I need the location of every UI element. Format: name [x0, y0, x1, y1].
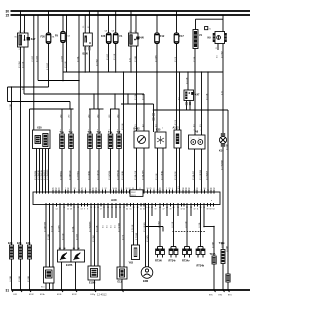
svg-text:51: 51: [159, 188, 161, 190]
svg-text:16: 16: [147, 188, 149, 190]
fuse F30: [41, 11, 55, 44]
svg-text:Y63: Y63: [129, 261, 134, 264]
svg-text:47: 47: [81, 188, 83, 190]
sensor E3M: [141, 267, 153, 283]
svg-text:0.5 SW: 0.5 SW: [93, 235, 95, 242]
svg-text:0.5 SW: 0.5 SW: [96, 59, 98, 66]
svg-text:13: 13: [74, 188, 76, 190]
relay K27: [15, 11, 36, 51]
svg-text:E26: E26: [26, 242, 31, 245]
ECU bottom pin ticks: [46, 203, 204, 205]
svg-text:37: 37: [157, 190, 159, 192]
svg-text:13: 13: [78, 190, 80, 192]
svg-text:7: 7: [166, 188, 167, 190]
node H72 long horizontal: [63, 71, 223, 73]
wire H72 drop to A8 box: [201, 72, 203, 135]
svg-text:8: 8: [87, 208, 88, 210]
svg-text:42: 42: [52, 188, 54, 190]
svg-text:1: 1: [36, 190, 37, 192]
node H87 horizontal: [8, 86, 49, 88]
node H104 horizontal: [121, 103, 154, 105]
mid wiring: [8, 11, 229, 274]
svg-text:A30: A30: [111, 198, 117, 202]
wires ECU to E11 box: [119, 205, 121, 268]
svg-text:0.5 SW/GE: 0.5 SW/GE: [38, 169, 40, 180]
svg-text:0.5 SW: 0.5 SW: [135, 93, 137, 100]
svg-text:59: 59: [155, 208, 157, 210]
svg-text:20: 20: [55, 188, 57, 190]
injector RT34h: [196, 247, 205, 268]
svg-text:0.5 BL: 0.5 BL: [77, 55, 79, 62]
svg-text:11: 11: [197, 208, 199, 210]
diode unit V1: [193, 19, 203, 48]
blower unit E17 left: [58, 247, 80, 291]
wire B4/6 drop to B482: [136, 46, 138, 131]
svg-text:19: 19: [98, 190, 100, 192]
svg-text:48: 48: [70, 208, 72, 210]
wire fuse F9 down: [62, 43, 64, 81]
bus 30: [6, 9, 251, 13]
wire label band: [10, 51, 229, 189]
svg-text:2: 2: [39, 190, 40, 192]
top components: [15, 11, 227, 81]
node H110 horizontal: [154, 109, 229, 111]
svg-text:0.5 BL/RT: 0.5 BL/RT: [193, 170, 195, 180]
svg-text:0.5 GN: 0.5 GN: [62, 233, 64, 240]
svg-text:13: 13: [81, 208, 83, 210]
svg-text:3: 3: [42, 190, 43, 192]
svg-text:F30: F30: [41, 36, 46, 39]
wire K27 pin down to node H94: [23, 47, 25, 94]
svg-text:E25: E25: [17, 242, 22, 245]
svg-text:68: 68: [210, 208, 212, 210]
svg-text:4: 4: [117, 130, 118, 132]
svg-text:9: 9: [84, 208, 85, 210]
svg-text:64: 64: [126, 208, 128, 210]
plug E26: [26, 242, 32, 290]
svg-text:51: 51: [201, 190, 203, 192]
svg-text:B4/6: B4/6: [139, 37, 145, 40]
relay B4/6: [129, 11, 145, 46]
wire H72 drop to ECU x208: [207, 72, 209, 192]
svg-text:25: 25: [67, 208, 69, 210]
svg-text:0.5 RT: 0.5 RT: [76, 233, 78, 240]
svg-text:0.5 GE: 0.5 GE: [114, 53, 116, 60]
svg-text:53: 53: [207, 190, 209, 192]
svg-text:3: 3: [97, 130, 98, 132]
svg-text:0.5 GE/BR: 0.5 GE/BR: [144, 222, 146, 232]
svg-text:0.5 WS: 0.5 WS: [147, 235, 149, 242]
ECU bottom pin numbers: [46, 207, 206, 209]
svg-text:0.5 GR/WS: 0.5 GR/WS: [200, 169, 202, 180]
ECU top pin ticks: [37, 192, 209, 194]
plug T4e: [108, 131, 113, 192]
svg-text:40: 40: [210, 188, 212, 190]
svg-text:27: 27: [123, 190, 125, 192]
svg-text:0.5 BR: 0.5 BR: [212, 241, 214, 248]
svg-text:0.5 GE: 0.5 GE: [51, 225, 53, 232]
svg-text:28: 28: [95, 188, 97, 190]
plug on right edge wire: [226, 274, 230, 290]
svg-text:39: 39: [170, 208, 172, 210]
node H101 horizontal: [8, 101, 71, 103]
svg-text:5: 5: [102, 188, 103, 190]
svg-text:1.0 GE: 1.0 GE: [172, 221, 174, 228]
wire gate1 feed: [69, 102, 71, 110]
plug T4a: [60, 131, 65, 192]
svg-text:0.5 GN: 0.5 GN: [65, 61, 67, 68]
svg-text:17: 17: [89, 190, 91, 192]
svg-text:29: 29: [150, 188, 152, 190]
svg-text:1.0 GN: 1.0 GN: [185, 221, 187, 228]
svg-text:0.5 BL: 0.5 BL: [72, 225, 74, 232]
wire fuse F7 down: [48, 44, 50, 88]
svg-text:0.5 VI/WS: 0.5 VI/WS: [118, 222, 120, 232]
svg-text:30: 30: [129, 31, 131, 33]
wire bus15 down to X30: [33, 15, 35, 130]
svg-text:RT34r: RT34r: [169, 260, 176, 263]
svg-text:85: 85: [23, 31, 25, 33]
relay K9 with side plugs: [196, 15, 227, 50]
wire F12 drop to snow box: [156, 44, 158, 133]
svg-text:0.5 VI: 0.5 VI: [175, 119, 177, 125]
svg-text:0.5 VI: 0.5 VI: [122, 234, 124, 240]
connector block X30: [33, 126, 51, 192]
bottom components: [8, 242, 230, 290]
wire F17 drop to A182: [176, 44, 178, 131]
svg-text:E3M: E3M: [143, 280, 148, 283]
svg-text:0.5 WS/GN: 0.5 WS/GN: [117, 169, 119, 180]
svg-text:31: 31: [6, 288, 10, 292]
svg-text:▸: ▸: [211, 199, 212, 202]
fuse F17: [174, 11, 184, 44]
svg-text:11: 11: [70, 190, 72, 192]
wire fuse F26 drop: [108, 44, 110, 73]
svg-text:0.5 GR: 0.5 GR: [206, 93, 208, 100]
svg-text:0.5 WS/BL: 0.5 WS/BL: [109, 170, 111, 180]
fuse F26: [101, 15, 111, 44]
wires ECU to E3M: [145, 205, 147, 267]
stub wires: [103, 205, 105, 219]
svg-text:X30/2: X30/2: [131, 192, 136, 194]
gate1 legs: [61, 109, 63, 134]
svg-text:2: 2: [201, 129, 202, 131]
svg-text:X30: X30: [37, 126, 42, 130]
svg-text:0.5 SW/BR: 0.5 SW/BR: [221, 160, 223, 170]
wire labels below ECU: [10, 221, 229, 282]
svg-text:0.5 BR/GE: 0.5 BR/GE: [69, 170, 71, 180]
wire bus15 long drop to ECU: [78, 15, 80, 192]
svg-text:T10A: T10A: [210, 253, 216, 256]
svg-text:2: 2: [109, 130, 110, 132]
below ECU wiring: [10, 205, 229, 283]
wire right edge drop: [227, 110, 229, 274]
injector RT34l: [155, 247, 164, 263]
wire gate2 feed: [93, 94, 95, 109]
gate2 bar and legs: [89, 108, 104, 110]
svg-text:0.5 BL: 0.5 BL: [194, 55, 196, 62]
svg-text:RT34v: RT34v: [182, 260, 190, 263]
svg-text:39: 39: [162, 190, 164, 192]
svg-text:1: 1: [162, 127, 163, 129]
svg-text:0.5 SW/GN: 0.5 SW/GN: [41, 169, 43, 180]
svg-text:X30/3: X30/3: [131, 195, 136, 197]
control unit E10: [41, 267, 54, 290]
wire B2/6 drops: [84, 52, 86, 72]
svg-text:0.5 BL/GE: 0.5 BL/GE: [135, 170, 137, 180]
relay B2/6: [83, 11, 93, 56]
svg-text:F17: F17: [180, 35, 185, 38]
instrument unit A8: [189, 130, 206, 192]
small plug X1: [205, 27, 212, 31]
dashed shield line: [173, 231, 206, 233]
svg-text:0.5 GR/BL: 0.5 GR/BL: [161, 170, 163, 180]
wire H72 drop to A182: [179, 72, 181, 130]
plug T4f: [117, 131, 122, 192]
plug T4b: [88, 131, 93, 192]
svg-text:0.5 BR: 0.5 BR: [48, 233, 50, 240]
svg-text:51: 51: [58, 188, 60, 190]
wire K9 drop to lamp: [222, 44, 224, 134]
node H94 horizontal: [24, 93, 144, 95]
svg-text:0.5 WS: 0.5 WS: [155, 55, 157, 62]
wires ECU to injectors: [159, 205, 161, 247]
svg-text:RT34l: RT34l: [155, 260, 162, 263]
svg-text:32: 32: [194, 208, 196, 210]
svg-text:0.5 BL/WS: 0.5 BL/WS: [142, 170, 144, 180]
ground ticks: [12, 290, 230, 292]
ECU inner connector box: [130, 190, 143, 197]
svg-text:45: 45: [179, 190, 181, 192]
svg-text:14: 14: [56, 208, 58, 210]
svg-text:10: 10: [67, 188, 69, 190]
svg-text:1.0 BR: 1.0 BR: [226, 245, 228, 252]
node H80 horizontal: [38, 80, 79, 82]
wire H72 drop to ECU x123.5: [123, 72, 125, 192]
wire drop to snow box with plug bits: [153, 104, 155, 132]
wire fuse F1 drop: [115, 44, 117, 73]
ECU top pin numbers: [36, 190, 209, 192]
svg-text:23: 23: [110, 190, 112, 192]
svg-text:0.5 GN: 0.5 GN: [122, 123, 124, 130]
svg-text:E35: E35: [156, 129, 161, 132]
svg-text:0.5 GR: 0.5 GR: [186, 77, 188, 84]
svg-text:4: 4: [45, 190, 46, 192]
svg-text:8: 8: [85, 188, 86, 190]
svg-text:0.5 GE/BL: 0.5 GE/BL: [88, 170, 90, 180]
gate3 bar and legs: [110, 108, 120, 110]
svg-text:0.5 GN: 0.5 GN: [156, 173, 158, 180]
svg-text:0.5 VI/GE: 0.5 VI/GE: [175, 171, 177, 180]
wire H94 drop to B482: [143, 94, 145, 131]
svg-text:0.5 GR: 0.5 GR: [96, 225, 98, 232]
node H226 left piece: [146, 226, 164, 228]
plug T10A: [210, 253, 217, 290]
svg-text:49: 49: [194, 190, 196, 192]
injector RT34v: [182, 247, 191, 263]
svg-text:0.5 RT: 0.5 RT: [36, 55, 38, 62]
svg-text:54: 54: [188, 188, 190, 190]
svg-text:B482: B482: [134, 128, 141, 131]
svg-text:0.5 BR: 0.5 BR: [135, 55, 137, 62]
ground point labels: [14, 294, 233, 297]
svg-text:e: e: [191, 138, 192, 140]
svg-text:8: 8: [154, 188, 155, 190]
injector RT34r: [169, 247, 178, 263]
svg-text:1.0 RT: 1.0 RT: [61, 55, 63, 62]
svg-text:E17B: E17B: [66, 264, 72, 267]
sensor E11: [117, 267, 127, 290]
A/C switch (snowflake): [155, 129, 166, 192]
svg-text:E91g: E91g: [91, 294, 96, 296]
svg-text:0.5 SW/WS: 0.5 SW/WS: [47, 169, 49, 180]
svg-text:0.75 GE: 0.75 GE: [132, 224, 134, 232]
svg-text:K47: K47: [195, 94, 200, 97]
sensor B482: [134, 128, 150, 192]
svg-text:18: 18: [182, 188, 184, 190]
wire V1 drop to A8 box: [194, 49, 196, 136]
wire bus30 drop x98: [97, 11, 99, 109]
svg-text:41: 41: [140, 208, 142, 210]
svg-text:0.5 SW/BL: 0.5 SW/BL: [35, 170, 37, 180]
svg-text:5: 5: [48, 190, 49, 192]
svg-text:0.5 VI: 0.5 VI: [175, 56, 177, 62]
svg-text:64: 64: [213, 208, 215, 210]
svg-text:38: 38: [185, 188, 187, 190]
svg-text:12-4512: 12-4512: [97, 293, 107, 297]
svg-text:A182: A182: [173, 127, 180, 130]
svg-text:0.5 SW/RT: 0.5 SW/RT: [44, 169, 46, 180]
svg-text:27: 27: [100, 208, 102, 210]
sensor E10B: [88, 266, 100, 290]
svg-text:RT34h: RT34h: [197, 264, 205, 267]
plug E24: [8, 242, 14, 290]
relay K47: [184, 71, 200, 110]
svg-text:19: 19: [196, 188, 198, 190]
plug T10k: [219, 242, 225, 290]
svg-text:16: 16: [204, 188, 206, 190]
svg-text:85: 85: [135, 31, 137, 33]
svg-text:9: 9: [121, 188, 122, 190]
svg-text:0.5 SW/WS: 0.5 SW/WS: [89, 221, 91, 232]
module A182: [173, 127, 182, 192]
svg-text:0.5 RT: 0.5 RT: [107, 53, 109, 60]
svg-text:6: 6: [172, 188, 173, 190]
junction dots on buses: [20, 10, 224, 16]
ECU A30: [33, 188, 220, 210]
wire K27 pin down left: [20, 47, 22, 245]
svg-text:0.5 BR/BL: 0.5 BR/BL: [60, 170, 62, 180]
plug E25: [17, 242, 23, 290]
svg-text:7: 7: [65, 188, 66, 190]
wire gate3 feed: [114, 94, 116, 109]
svg-text:29: 29: [169, 188, 171, 190]
svg-text:9: 9: [62, 190, 63, 192]
lamp K10: [219, 133, 227, 250]
svg-text:0.5 GN/BL: 0.5 GN/BL: [122, 170, 124, 180]
middle band components: [33, 125, 227, 250]
enclosure edge / H109: [30, 108, 74, 110]
svg-text:24: 24: [213, 188, 215, 190]
wires ECU to E10B: [90, 205, 92, 267]
svg-text:1.0 BR: 1.0 BR: [10, 103, 12, 110]
svg-text:0.5 WS: 0.5 WS: [58, 225, 60, 232]
wires ECU to switch units: [59, 205, 61, 247]
svg-text:0.5 SW: 0.5 SW: [19, 61, 21, 68]
svg-text:30: 30: [19, 31, 21, 33]
svg-text:43: 43: [176, 190, 178, 192]
svg-text:0.5 GE: 0.5 GE: [22, 61, 24, 68]
svg-text:2: 2: [60, 130, 61, 132]
fuse F9: [55, 15, 71, 43]
svg-text:4: 4: [69, 130, 70, 132]
plug T4c: [69, 131, 74, 192]
fuse F12: [155, 15, 165, 44]
svg-text:E24: E24: [8, 242, 13, 245]
svg-text:T10k: T10k: [219, 242, 225, 245]
svg-text:1: 1: [88, 130, 89, 132]
bus 15: [6, 14, 251, 18]
svg-text:24: 24: [183, 208, 185, 210]
svg-text:0.5 SW: 0.5 SW: [221, 51, 223, 58]
svg-text:12: 12: [105, 188, 107, 190]
svg-text:55: 55: [130, 208, 132, 210]
svg-text:p: p: [199, 138, 200, 140]
svg-text:65: 65: [92, 188, 94, 190]
svg-text:F12: F12: [160, 35, 165, 38]
ground bus 31: [6, 288, 251, 296]
wires ECU to E10 box: [45, 205, 47, 268]
svg-text:1.5 RT: 1.5 RT: [32, 55, 34, 62]
svg-text:0.75 RT: 0.75 RT: [47, 62, 49, 70]
svg-text:1.0 SW: 1.0 SW: [158, 221, 160, 228]
svg-text:15: 15: [6, 14, 10, 18]
fuse F1: [112, 11, 124, 44]
svg-text:F26: F26: [101, 35, 106, 38]
wires ECU to Y63: [133, 205, 135, 246]
wire bus15 drop to H72: [66, 15, 68, 72]
svg-text:39: 39: [207, 208, 209, 210]
svg-text:47: 47: [163, 208, 165, 210]
svg-text:0.5 GE/GN: 0.5 GE/GN: [97, 170, 99, 180]
svg-text:0.5 GE: 0.5 GE: [142, 93, 144, 100]
svg-text:25: 25: [118, 190, 120, 192]
svg-text:31: 31: [126, 188, 128, 190]
svg-text:0.5 RT/BL: 0.5 RT/BL: [77, 170, 79, 180]
wire H94 drop to H104: [127, 94, 129, 104]
svg-text:0.5 BR/SW: 0.5 BR/SW: [44, 222, 46, 232]
svg-text:1.0 BL: 1.0 BL: [199, 221, 201, 228]
svg-text:E10: E10: [41, 287, 44, 289]
wire B4/6 drop to H72: [130, 46, 132, 72]
svg-text:0.5 BR: 0.5 BR: [226, 143, 228, 150]
svg-text:0.5 SW/VI: 0.5 SW/VI: [206, 171, 208, 180]
plug T4d: [97, 131, 102, 192]
valve Y63: [129, 245, 140, 264]
wire left drop to bottom plug: [11, 87, 13, 245]
node wires right: [203, 205, 205, 227]
wire left riser: [7, 87, 9, 102]
wire bus15 drop x38: [37, 15, 39, 81]
svg-text:0.75 BR: 0.75 BR: [136, 232, 138, 240]
blower unit E17 right: [66, 247, 85, 291]
svg-text:54: 54: [115, 188, 117, 190]
